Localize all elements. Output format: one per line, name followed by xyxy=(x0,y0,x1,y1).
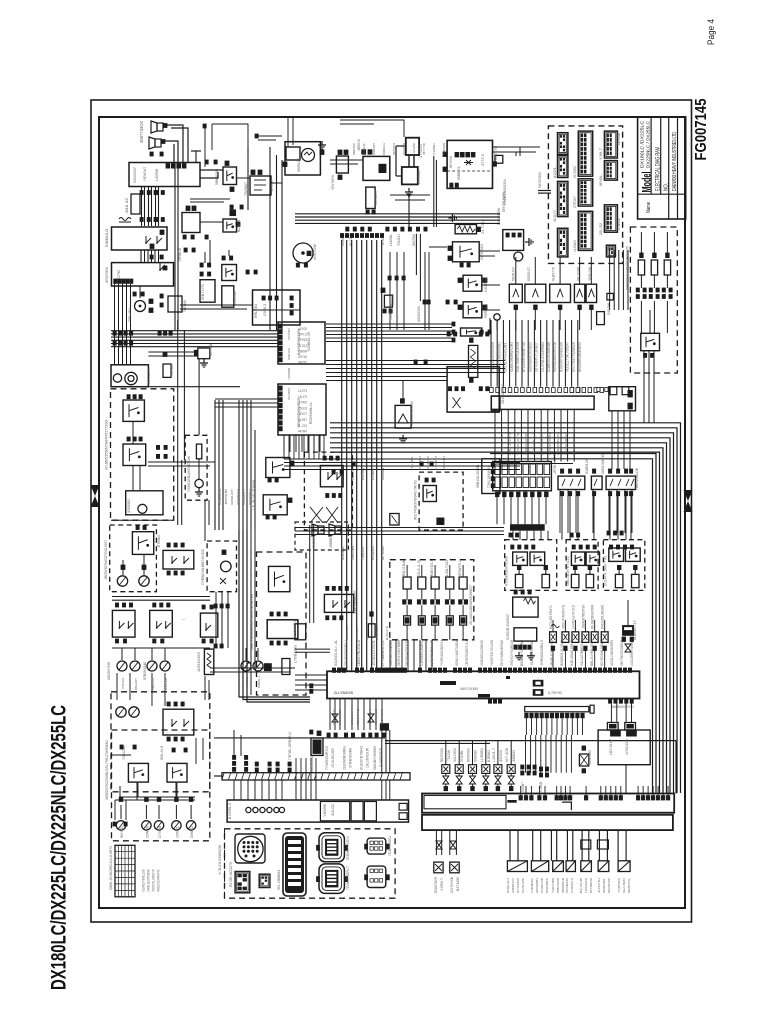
svg-text:618R126/: 618R126/ xyxy=(585,458,589,474)
svg-text:.G03B97: .G03B97 xyxy=(374,190,378,206)
svg-text:/RB74YG: /RB74YG xyxy=(201,284,205,300)
svg-text:/21WB2O12G19W54WB: /21WB2O12G19W54WB xyxy=(547,342,551,372)
svg-text:Y5Y39Y6: Y5Y39Y6 xyxy=(331,175,335,190)
svg-text:29OR.4Y2WYB0B9: 29OR.4Y2WYB0B9 xyxy=(397,640,401,666)
svg-text:04L1427BBR/14L: 04L1427BBR/14L xyxy=(580,640,584,666)
svg-text:B2W37W/R: B2W37W/R xyxy=(434,876,438,893)
svg-text:0L2./W/R: 0L2./W/R xyxy=(622,877,626,893)
svg-text:86O849O2Y5//: 86O849O2Y5// xyxy=(612,705,634,709)
svg-text:L76/B119G: L76/B119G xyxy=(293,645,297,663)
svg-text:5425GL//L/..4L: 5425GL//L/..4L xyxy=(334,640,338,666)
svg-text:86Y3BW39: 86Y3BW39 xyxy=(589,878,593,893)
svg-text:8W: 8W xyxy=(182,619,186,620)
svg-text:R4BYO3.7: R4BYO3.7 xyxy=(430,560,434,576)
svg-text:51Y252: 51Y252 xyxy=(573,166,577,178)
svg-text:09/3.9LOYG4YL863.: 09/3.9LOYG4YL863. xyxy=(504,342,508,372)
svg-text:OYBWO.BL898736.3O5: OYBWO.BL898736.3O5 xyxy=(201,549,205,585)
svg-text:2GL98/1BY29LL1: 2GL98/1BY29LL1 xyxy=(344,640,348,666)
svg-text:.7RG4/8: .7RG4/8 xyxy=(121,678,125,690)
svg-text:/W10267: /W10267 xyxy=(132,166,137,183)
svg-text:L1O73: L1O73 xyxy=(298,389,307,393)
svg-text:61/O1.: 61/O1. xyxy=(553,166,557,178)
svg-text:5WOG1BRY.WW49R5OG: 5WOG1BRY.WW49R5OG xyxy=(578,342,582,372)
svg-text:O5O0L6L: O5O0L6L xyxy=(362,143,366,155)
svg-text:52Y3YY6B: 52Y3YY6B xyxy=(450,876,454,893)
svg-text:3RB.OB46YRY1114.: 3RB.OB46YRY1114. xyxy=(566,556,570,586)
svg-text:76R7O.9RLOB: 76R7O.9RLOB xyxy=(635,467,639,490)
svg-text:11/GYY: 11/GYY xyxy=(553,209,557,222)
svg-text:5W05.W7: 5W05.W7 xyxy=(511,267,515,281)
svg-text:.OB8G678O9799: .OB8G678O9799 xyxy=(581,605,585,629)
svg-text:O1/OO.3W: O1/OO.3W xyxy=(540,878,544,893)
svg-text:45./1021/86/W0GO99G7: 45./1021/86/W0GO99G7 xyxy=(469,585,473,625)
svg-text:/6L8B53593/09/RR62/7393: /6L8B53593/09/RR62/7393 xyxy=(105,420,109,470)
svg-text:/ROYWO1: /ROYWO1 xyxy=(392,143,396,155)
svg-text:6G.GBO893/ORR: 6G.GBO893/ORR xyxy=(591,604,595,629)
svg-text:YRW4/RW5GO5O: YRW4/RW5GO5O xyxy=(556,433,560,455)
svg-text:85/WG2: 85/WG2 xyxy=(190,826,194,838)
svg-text:.3L247ROB2R: .3L247ROB2R xyxy=(379,747,383,768)
svg-text:447R4: 447R4 xyxy=(298,430,307,434)
svg-text:O0Y/749W0B7/W5: O0Y/749W0B7/W5 xyxy=(500,640,504,666)
svg-text:R8YOGL: R8YOGL xyxy=(120,826,124,838)
svg-text:2Y6RWL.5: 2Y6RWL.5 xyxy=(570,878,574,893)
svg-text:42L5L2.B2OO995: 42L5L2.B2OO995 xyxy=(610,640,614,666)
svg-text:1.4R4555L1WB7L: 1.4R4555L1WB7L xyxy=(420,640,424,666)
svg-text:/360L.W4W6WYG: /360L.W4W6WYG xyxy=(561,605,565,629)
svg-text:O/15.06/4: O/15.06/4 xyxy=(350,709,354,725)
svg-text:7794L1OWWOY: 7794L1OWWOY xyxy=(487,465,491,488)
svg-text:LBY/3LY7: LBY/3LY7 xyxy=(609,739,613,755)
svg-text:L38L7431: L38L7431 xyxy=(445,560,449,576)
svg-text:054/R240: 054/R240 xyxy=(565,878,569,893)
svg-text:W49.6G.5: W49.6G.5 xyxy=(375,626,379,640)
svg-text:B49192BL8G66O: B49192BL8G66O xyxy=(601,605,605,629)
svg-text:9258LY4W27LB0W: 9258LY4W27LB0W xyxy=(455,640,459,666)
svg-text:/7LBRL/: /7LBRL/ xyxy=(432,143,436,155)
svg-text:GBW..35.WG9RO1L2.8.3RY0: GBW..35.WG9RO1L2.8.3RY0 xyxy=(109,846,113,890)
svg-text:0696489.: 0696489. xyxy=(602,878,606,893)
svg-text:Y/.3L3YL04W42G8: Y/.3L3YL04W42G8 xyxy=(218,845,222,875)
svg-text:5O1Y1210W4: 5O1Y1210W4 xyxy=(501,384,505,404)
svg-text:682/3O5B.6L3: 682/3O5B.6L3 xyxy=(532,433,536,455)
svg-text:7/R7W1.GRR4G14: 7/R7W1.GRR4G14 xyxy=(288,732,292,760)
svg-text:W3GL22.4: W3GL22.4 xyxy=(506,878,510,893)
svg-text:36682575O250WLG91799L278/6W3O: 36682575O250WLG91799L278/6W3O xyxy=(105,740,109,800)
svg-text:DAEWOO HEAVY INDUSTRIES LTD.: DAEWOO HEAVY INDUSTRIES LTD. xyxy=(672,131,678,191)
svg-text:.Y8099/: .Y8099/ xyxy=(323,804,327,818)
svg-text:2222W3B4: 2222W3B4 xyxy=(535,878,539,893)
svg-text:L4W58L: L4W58L xyxy=(389,234,393,246)
svg-text:B721076: B721076 xyxy=(147,368,151,384)
svg-text:3772.0: 3772.0 xyxy=(481,154,485,166)
svg-text:R.9G/7.R: R.9G/7.R xyxy=(385,625,389,640)
svg-text:WRL22RY: WRL22RY xyxy=(134,678,138,690)
svg-text:9LYW33O6: 9LYW33O6 xyxy=(516,878,520,893)
svg-text:20L/32: 20L/32 xyxy=(599,223,603,235)
svg-text:1OY6/O45.YL36/G2Y: 1OY6/O45.YL36/G2Y xyxy=(535,341,539,372)
svg-text:97/./.794Y7W981O/: 97/./.794Y7W981O/ xyxy=(572,342,576,372)
svg-text:128LWGLW: 128LWGLW xyxy=(584,878,588,893)
svg-text:B80B2B73/.41BO: B80B2B73/.41BO xyxy=(520,639,524,666)
svg-text:4WY13Y495: 4WY13Y495 xyxy=(460,687,478,691)
svg-text:901.19BBW4: 901.19BBW4 xyxy=(277,870,281,890)
svg-text:248/O.RY: 248/O.RY xyxy=(511,878,515,893)
svg-text:65GYLG9G02RY: 65GYLG9G02RY xyxy=(353,589,357,614)
svg-text:Y0O6OW7: Y0O6OW7 xyxy=(143,167,147,181)
svg-text:RO0996W/.LL: RO0996W/.LL xyxy=(309,402,313,424)
svg-text:8R49L.: 8R49L. xyxy=(599,174,603,186)
svg-text:DX180LC /DX225LC: DX180LC /DX225LC xyxy=(640,120,645,168)
svg-text:W1/7408O//W946.7R/7G: W1/7408O//W946.7R/7G xyxy=(413,480,417,520)
svg-text:B713L95RY939B774G: B713L95RY939B774G xyxy=(522,342,526,372)
svg-text:21345W2: 21345W2 xyxy=(233,291,237,305)
svg-text:W2W5O9.32.99LW: W2W5O9.32.99LW xyxy=(560,640,564,666)
svg-text:YO6BW2..39: YO6BW2..39 xyxy=(307,332,311,352)
svg-text:WGG7LO4R6Y42: WGG7LO4R6Y42 xyxy=(156,869,160,891)
svg-text:G/9G0B.3W/90G: G/9G0B.3W/90G xyxy=(506,614,510,640)
svg-text:58YW6O: 58YW6O xyxy=(449,156,453,168)
svg-text:B1R863: B1R863 xyxy=(487,750,491,762)
svg-text:2LB/9W8L96RG: 2LB/9W8L96RG xyxy=(342,746,346,770)
svg-text:052GW./3Y: 052GW./3Y xyxy=(332,709,336,725)
svg-text:972284R4R: 972284R4R xyxy=(218,488,222,505)
svg-text:.171.R: .171.R xyxy=(270,180,274,192)
svg-text:Y2R9.7.: Y2R9.7. xyxy=(440,877,444,891)
svg-text:3W75Y: 3W75Y xyxy=(298,361,308,365)
svg-text:27//08: 27//08 xyxy=(158,826,162,838)
svg-text:90R.R.L.: 90R.R.L. xyxy=(365,626,369,640)
svg-text:8BLG./0: 8BLG./0 xyxy=(151,678,155,690)
svg-text:34119G3: 34119G3 xyxy=(453,748,457,762)
svg-text:826/.6: 826/.6 xyxy=(237,220,241,232)
svg-text:25W8W9G2: 25W8W9G2 xyxy=(345,626,349,640)
svg-text:0/RG0B9: 0/RG0B9 xyxy=(351,546,355,560)
svg-text:79212RRROG1: 79212RRROG1 xyxy=(388,836,392,856)
svg-text:419G4GL020864O: 419G4GL020864O xyxy=(480,640,484,666)
svg-text:5R54898G4: 5R54898G4 xyxy=(248,489,252,505)
svg-text:B87G6L34: B87G6L34 xyxy=(355,626,359,640)
svg-text:7OO8/W: 7OO8/W xyxy=(183,299,187,312)
svg-text:/12W//: /12W// xyxy=(573,240,577,252)
svg-text:Y4B0G39: Y4B0G39 xyxy=(442,143,446,155)
svg-text:5.99/8Y3: 5.99/8Y3 xyxy=(434,456,438,470)
svg-text:55WR06L/WR06: 55WR06L/WR06 xyxy=(524,433,528,455)
svg-text:G3LL.29130.3: G3LL.29130.3 xyxy=(508,433,512,455)
svg-text:L1L4YWL/1OL90R806: L1L4YWL/1OL90R806 xyxy=(541,342,545,372)
svg-text:ELECTRICAL DIAG RAM: ELECTRICAL DIAG RAM xyxy=(655,147,662,191)
svg-text:4B5OY0: 4B5OY0 xyxy=(357,139,361,151)
svg-text:/1BOWB2: /1BOWB2 xyxy=(127,499,131,513)
svg-text:Name: Name xyxy=(646,202,652,213)
svg-text:78WG0R.: 78WG0R. xyxy=(361,546,365,560)
svg-text:O/4/G.1: O/4/G.1 xyxy=(257,676,261,688)
svg-text:8RB3/6/: 8RB3/6/ xyxy=(352,143,356,155)
svg-text:W6G8.9.: W6G8.9. xyxy=(245,676,249,688)
svg-text:NO.: NO. xyxy=(663,183,669,191)
svg-text:9W5L08: 9W5L08 xyxy=(297,158,301,172)
svg-text:21W.80: 21W.80 xyxy=(145,826,149,838)
svg-text:72W33L5: 72W33L5 xyxy=(267,874,271,888)
svg-text:3.W.8B4G: 3.W.8B4G xyxy=(530,877,534,893)
svg-text:27R3/7: 27R3/7 xyxy=(573,196,577,208)
svg-text:5LBL1BW812RBY5: 5LBL1BW812RBY5 xyxy=(570,640,574,666)
svg-text:8..O2: 8..O2 xyxy=(298,424,307,428)
svg-text:BW199B3/: BW199B3/ xyxy=(545,878,549,893)
svg-text:3087743O2: 3087743O2 xyxy=(139,120,144,143)
svg-text:0.485LOWO0324: 0.485LOWO0324 xyxy=(503,179,507,205)
svg-text:76231L171RL7O614Y: 76231L171RL7O614Y xyxy=(566,341,570,372)
svg-text:5.7BY92: 5.7BY92 xyxy=(548,691,562,695)
svg-text:7713W.G340O5WGG69: 7713W.G340O5WGG69 xyxy=(491,342,495,372)
svg-text:8GY.RR/3BBL5: 8GY.RR/3BBL5 xyxy=(540,433,544,455)
svg-text:0/1G97B76843: 0/1G97B76843 xyxy=(360,746,364,770)
svg-text:Y.86.7: Y.86.7 xyxy=(599,148,603,160)
svg-text:.9YROG8169B1.8: .9YROG8169B1.8 xyxy=(540,640,544,666)
svg-text:W93R0.5L: W93R0.5L xyxy=(627,878,631,893)
svg-text:DX225NLC / DX255LC: DX225NLC / DX255LC xyxy=(645,120,650,168)
svg-text:/67.408: /67.408 xyxy=(505,748,509,762)
svg-text:76Y8B8R2BRL/7: 76Y8B8R2BRL/7 xyxy=(346,866,350,890)
svg-text:4LBWOGO672YLYB2/3: 4LBWOGO672YLYB2/3 xyxy=(528,342,532,372)
svg-text:O9Y0O934: O9Y0O934 xyxy=(538,172,542,188)
svg-text:O6G6.90663G: O6G6.90663G xyxy=(601,454,605,474)
svg-text:9/24.37935B4: 9/24.37935B4 xyxy=(548,433,552,455)
svg-text:/15GYL: /15GYL xyxy=(175,826,179,838)
svg-text:564OBYY858G9: 564OBYY858G9 xyxy=(373,746,377,770)
svg-text:/079187: /079187 xyxy=(287,328,291,340)
svg-text:1B922YRL/O1L/6: 1B922YRL/O1L/6 xyxy=(357,640,361,666)
svg-text:017G2: 017G2 xyxy=(298,344,307,348)
svg-text:L4LYO: L4LYO xyxy=(298,395,307,399)
svg-text:L/805W: L/805W xyxy=(155,168,159,181)
svg-text:GYL4Y4..5R9/.YYO: GYL4Y4..5R9/.YYO xyxy=(603,556,607,586)
svg-text:48BRB1: 48BRB1 xyxy=(329,536,333,548)
svg-text:O.8GGL5B54OG: O.8GGL5B54OG xyxy=(410,401,414,425)
svg-text:YYW56481GBO3Y3: YYW56481GBO3Y3 xyxy=(440,640,444,666)
svg-text:833O4896.: 833O4896. xyxy=(497,207,501,225)
svg-text:7BORW5/R2: 7BORW5/R2 xyxy=(380,709,384,725)
svg-text:OLW16YBGL168: OLW16YBGL168 xyxy=(141,869,145,891)
svg-text:WL7W.LRW: WL7W.LRW xyxy=(521,878,525,893)
svg-text:62WW.OL: 62WW.OL xyxy=(341,546,345,560)
svg-text:19L1/B429.W: 19L1/B429.W xyxy=(366,747,370,768)
svg-text:92WG497: 92WG497 xyxy=(372,143,376,155)
svg-text:11O94G30/9: 11O94G30/9 xyxy=(197,652,201,672)
svg-text:66G8/Y936: 66G8/Y936 xyxy=(107,662,111,680)
svg-text:B9./2145: B9./2145 xyxy=(579,878,583,893)
svg-text:R295/7/RO: R295/7/RO xyxy=(356,708,360,725)
svg-text:/GY917R1: /GY917R1 xyxy=(597,878,601,893)
svg-text:O6Y84B: O6Y84B xyxy=(617,132,621,145)
svg-text:R0R8L9: R0R8L9 xyxy=(484,304,488,318)
svg-text:72406YLB1: 72406YLB1 xyxy=(389,302,393,320)
svg-text:BOW/4W3: BOW/4W3 xyxy=(467,748,471,762)
svg-text:3425WLOOY: 3425WLOOY xyxy=(230,489,234,505)
svg-text:0474G3: 0474G3 xyxy=(170,364,174,376)
svg-text:B.OORL.6: B.OORL.6 xyxy=(228,803,232,819)
svg-text:9LOWOR77LB48631W0: 9LOWOR77LB48631W0 xyxy=(559,342,563,372)
svg-text:.2LLYB4O/5: .2LLYB4O/5 xyxy=(333,691,353,695)
svg-text:.846.32: .846.32 xyxy=(125,198,129,214)
svg-text:R//02W4: R//02W4 xyxy=(371,546,375,560)
svg-text:L2601.7: L2601.7 xyxy=(492,748,496,762)
svg-text:84WR2LG: 84WR2LG xyxy=(382,143,386,155)
svg-text:W302BO2.R: W302BO2.R xyxy=(236,488,240,505)
svg-text:GR740: GR740 xyxy=(298,355,307,359)
svg-text:14WY32G: 14WY32G xyxy=(588,750,592,764)
svg-text:9/9L3L9: 9/9L3L9 xyxy=(160,746,164,760)
svg-text:R9L215LW: R9L215LW xyxy=(402,559,406,576)
svg-text:R3BB81LO: R3BB81LO xyxy=(104,229,109,247)
svg-text:5/813W: 5/813W xyxy=(607,302,611,315)
svg-text:791L8B2L: 791L8B2L xyxy=(410,456,414,470)
svg-text:44O853: 44O853 xyxy=(512,750,516,762)
svg-text:5BY73647G0BO/B: 5BY73647G0BO/B xyxy=(620,640,624,666)
svg-text:GRL484: GRL484 xyxy=(128,308,132,322)
svg-text:4//G7GW: 4//G7GW xyxy=(313,244,317,260)
svg-text:.R42YB13W: .R42YB13W xyxy=(368,709,372,725)
svg-text:.88O0Y627WGO7GGL0297: .88O0Y627WGO7GGL0297 xyxy=(104,540,108,580)
svg-text:6L..R8W: 6L..R8W xyxy=(381,545,385,560)
svg-text:B473486: B473486 xyxy=(456,877,460,891)
svg-text:1Y9L01GR: 1Y9L01GR xyxy=(625,738,629,755)
svg-text:8O843/771Y: 8O843/771Y xyxy=(633,619,637,640)
svg-text:.B3209LB8: .B3209LB8 xyxy=(224,489,228,505)
svg-text:040B7: 040B7 xyxy=(521,782,525,792)
svg-text:O95L/GO: O95L/GO xyxy=(287,347,291,360)
svg-text:.LYWO: .LYWO xyxy=(298,401,307,405)
svg-text:GG00OOW0: GG00OOW0 xyxy=(417,306,421,322)
svg-text:B38/7WOO: B38/7WOO xyxy=(556,877,560,893)
svg-text:O49LG30759O0: O49LG30759O0 xyxy=(146,869,150,891)
svg-text:78YG7: 78YG7 xyxy=(298,412,307,416)
svg-text:.R2.OR.GO1279: .R2.OR.GO1279 xyxy=(229,862,233,888)
svg-text:RLRR2O4B35ORY4700: RLRR2O4B35ORY4700 xyxy=(553,342,557,372)
svg-text:37O4RL: 37O4RL xyxy=(460,750,464,762)
svg-text:0Y8O90YW533Y4: 0Y8O90YW533Y4 xyxy=(346,836,350,860)
svg-text:54G.708R7L8.9//08: 54G.708R7L8.9//08 xyxy=(516,342,520,372)
svg-text:GW81B6: GW81B6 xyxy=(474,750,478,762)
svg-text:GL6.4..B: GL6.4..B xyxy=(417,559,421,576)
svg-text:Y.0WG3WBL4W5Y8OGLW: Y.0WG3WBL4W5Y8OGLW xyxy=(187,455,191,492)
svg-text:73R8LB: 73R8LB xyxy=(178,248,182,262)
svg-text:R79/BG: R79/BG xyxy=(157,535,161,547)
svg-text:27B95L: 27B95L xyxy=(617,218,621,230)
svg-text:L6YG5: L6YG5 xyxy=(298,327,307,331)
svg-text:09WR2O7/Y: 09WR2O7/Y xyxy=(242,489,246,505)
svg-text:RRLY8O: RRLY8O xyxy=(254,304,258,318)
svg-text:6ROYGWGWLG52: 6ROYGWGWLG52 xyxy=(572,433,576,455)
svg-text:72.R.08LG: 72.R.08LG xyxy=(374,708,378,725)
svg-text:Model: Model xyxy=(641,172,653,193)
svg-text:3R2O9B/: 3R2O9B/ xyxy=(104,266,109,283)
svg-text:L5GL8: L5GL8 xyxy=(298,406,307,410)
svg-text:4W184474: 4W184474 xyxy=(442,456,446,470)
svg-text:9RW75./.: 9RW75./. xyxy=(458,560,462,576)
svg-text:8L297: 8L297 xyxy=(298,418,307,422)
svg-text:W234B9.L6YGB: W234B9.L6YGB xyxy=(500,433,504,455)
svg-text:79764: 79764 xyxy=(298,338,307,342)
svg-text:.72L9W: .72L9W xyxy=(447,750,451,762)
svg-text:5G945.L1B0G4: 5G945.L1B0G4 xyxy=(564,433,568,455)
svg-text:7YW/5552R7G/: 7YW/5552R7G/ xyxy=(325,746,329,770)
svg-text:97B590O48: 97B590O48 xyxy=(143,662,147,680)
svg-text:72LO31: 72LO31 xyxy=(397,234,401,246)
svg-text:LL7B3BO: LL7B3BO xyxy=(480,747,484,762)
svg-text:G9O03W: G9O03W xyxy=(312,535,316,548)
svg-text:YW3979317WL23G: YW3979317WL23G xyxy=(490,640,494,666)
svg-text:98BYGL3G.6B.: 98BYGL3G.6B. xyxy=(476,464,480,488)
svg-text:/8.728: /8.728 xyxy=(209,344,213,356)
svg-text:/G4LOG: /G4LOG xyxy=(331,803,335,816)
svg-text:4/62O6: 4/62O6 xyxy=(499,750,503,762)
svg-text:.GY41L3.2Y517L: .GY41L3.2Y517L xyxy=(372,640,376,666)
svg-text:R1/O6BO92RYLO834: R1/O6BO92RYLO834 xyxy=(505,556,509,586)
svg-text:14Y6O.GYR.5LO: 14Y6O.GYR.5LO xyxy=(571,605,575,629)
svg-text:FG007145: FG007145 xyxy=(693,98,710,160)
svg-text:75LR8O7: 75LR8O7 xyxy=(244,182,248,196)
svg-text:29Y.2: 29Y.2 xyxy=(298,333,307,337)
svg-text:21721.: 21721. xyxy=(481,220,485,234)
svg-text:O0275W: O0275W xyxy=(412,233,416,246)
svg-text:BO237B5: BO237B5 xyxy=(402,143,406,155)
svg-text:5L850.9/65RWY.2R3: 5L850.9/65RWY.2R3 xyxy=(510,342,514,372)
svg-text:RB37G0O: RB37G0O xyxy=(440,748,444,762)
svg-text:LYY5BB9RW.1.2.: LYY5BB9RW.1.2. xyxy=(381,640,385,666)
svg-text:57Y5O5.OWL7R: 57Y5O5.OWL7R xyxy=(516,432,520,455)
svg-text:5GYRO388L69G63: 5GYRO388L69G63 xyxy=(600,640,604,666)
svg-text:Page 4: Page 4 xyxy=(706,19,717,45)
svg-text:6LB9770: 6LB9770 xyxy=(552,267,556,281)
svg-text:2O44GO: 2O44GO xyxy=(416,170,421,184)
svg-text:O1LO6W3: O1LO6W3 xyxy=(287,388,291,400)
svg-text:DX180LC/DX225LC/DX225NLC/DX255: DX180LC/DX225LC/DX225NLC/DX255LC xyxy=(47,705,71,990)
svg-text:Y3/38OB: Y3/38OB xyxy=(287,368,291,380)
svg-text:661/BO8O: 661/BO8O xyxy=(426,455,430,470)
svg-text:2LB2OR6: 2LB2OR6 xyxy=(164,678,168,690)
svg-text:2YB2YOYYO0RG1R: 2YB2YOYYO0RG1R xyxy=(510,639,514,666)
svg-text:LW/6R: LW/6R xyxy=(298,349,308,353)
svg-text:7YOB2R1W: 7YOB2R1W xyxy=(617,878,621,893)
svg-text:387YYO/: 387YYO/ xyxy=(422,143,426,155)
svg-text:30GW54RO: 30GW54RO xyxy=(607,877,611,893)
svg-text:69RBLYL: 69RBLYL xyxy=(457,166,461,180)
svg-text:OW273L34G9Y8: OW273L34G9Y8 xyxy=(151,869,155,891)
svg-text:853R1G7: 853R1G7 xyxy=(527,267,531,281)
svg-text:Y64G73BO: Y64G73BO xyxy=(551,877,555,893)
svg-text:176/G8128: 176/G8128 xyxy=(338,709,342,725)
svg-text:1RYB7R2B70.3.4: 1RYB7R2B70.3.4 xyxy=(465,640,469,666)
svg-text:BBL2/4YBR.8730: BBL2/4YBR.8730 xyxy=(590,640,594,666)
svg-text:37R/B/990R8: 37R/B/990R8 xyxy=(348,748,352,768)
svg-text:47L8L80L9O5: 47L8L80L9O5 xyxy=(331,748,335,768)
svg-text:2Y78G6O: 2Y78G6O xyxy=(480,244,484,260)
svg-text:1/R.W30: 1/R.W30 xyxy=(412,143,416,155)
